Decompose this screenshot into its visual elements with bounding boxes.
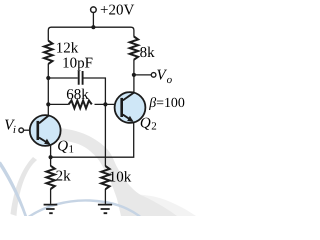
node 68k-left junction xyxy=(46,102,50,106)
node cap-left junction xyxy=(46,76,50,80)
svg-text:+20V: +20V xyxy=(100,2,134,18)
transistor Q2 base bar xyxy=(120,98,123,117)
wire 2k top lead xyxy=(50,157,52,166)
wire capacitor right + drop to node B xyxy=(84,78,106,104)
svg-text:10pF: 10pF xyxy=(62,55,93,71)
transistor Q2 emitter diagonal xyxy=(123,115,133,121)
terminal +20V xyxy=(91,7,97,13)
wire capacitor left xyxy=(48,77,78,79)
wire 68k left lead xyxy=(48,103,68,105)
transistor Q1 emitter arrow xyxy=(44,139,50,145)
wire left column 12k to Q1 collector xyxy=(47,64,49,116)
svg-text:o: o xyxy=(167,74,173,86)
resistor R 8k xyxy=(130,37,138,60)
node Vo tap junction xyxy=(132,73,136,77)
transistor Q1 emitter diagonal xyxy=(39,138,49,144)
svg-text:2: 2 xyxy=(151,121,157,133)
transistor Q1 collector diagonal xyxy=(39,116,49,124)
svg-text:10k: 10k xyxy=(109,169,132,185)
wire Vo tap xyxy=(134,74,151,76)
wire 8k bottom to Q2 collector xyxy=(133,60,135,93)
svg-text:Q: Q xyxy=(140,115,151,131)
svg-text:i: i xyxy=(13,124,16,136)
terminal Vi xyxy=(19,128,24,133)
wire 68k right lead to Q2 base xyxy=(95,103,123,105)
node B junction 68k-right / Q2 base xyxy=(103,102,107,106)
transistor Q1 body xyxy=(30,115,61,146)
svg-text:12k: 12k xyxy=(56,41,79,57)
transistor Q2 body xyxy=(115,92,146,123)
wire Q1 emitter down xyxy=(50,145,52,157)
svg-text:Q: Q xyxy=(57,138,68,154)
svg-text:8k: 8k xyxy=(140,45,156,61)
svg-text:2k: 2k xyxy=(56,169,72,185)
node Q1 emitter junction xyxy=(49,155,53,159)
terminal Vo xyxy=(151,73,156,78)
transistor Q2 collector diagonal xyxy=(123,93,134,101)
resistor R 10k xyxy=(101,166,109,189)
resistor R 68k (horizontal) xyxy=(69,101,92,109)
transistor Q1 base bar xyxy=(36,121,39,140)
wire top rail xyxy=(48,27,134,41)
wire 10k bottom lead xyxy=(104,189,106,204)
wire supply drop xyxy=(92,13,94,28)
resistor R 2k xyxy=(46,166,54,189)
svg-text:β=100: β=100 xyxy=(148,96,185,111)
ground (left) xyxy=(44,205,58,214)
transistor Q2 emitter arrow xyxy=(127,116,133,122)
resistor R 12k xyxy=(44,41,52,64)
wire emitter bus to Q2 emitter xyxy=(51,122,134,157)
wire Vi to Q1 base xyxy=(24,129,38,131)
svg-text:68k: 68k xyxy=(66,87,89,103)
node supply junction xyxy=(91,25,95,29)
capacitor C 10pF plates xyxy=(79,71,83,85)
wire 2k bottom lead xyxy=(50,189,52,204)
svg-text:1: 1 xyxy=(69,144,75,156)
wire node B drop to 10k xyxy=(104,104,106,166)
ground (right) xyxy=(98,205,112,214)
